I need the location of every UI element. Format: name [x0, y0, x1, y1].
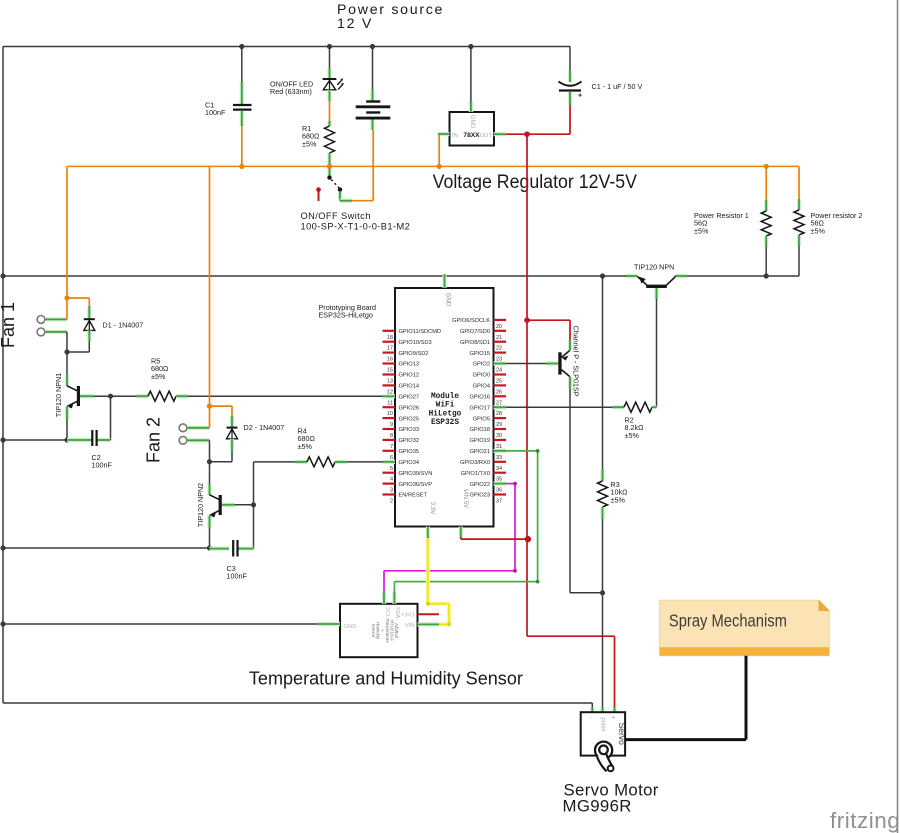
svg-text:GPIO16: GPIO16 [469, 395, 490, 401]
svg-text:21: 21 [496, 335, 502, 341]
svg-text:GPIO3/RX0: GPIO3/RX0 [460, 460, 490, 466]
wire fan1 emitter line [3, 439, 67, 441]
svg-text:±5%: ±5% [611, 495, 626, 504]
pin 21 GPIO7/SD0 right [494, 330, 507, 332]
node fan1 emitter junction [64, 437, 69, 442]
svg-text:ON/OFF Switch: ON/OFF Switch [301, 211, 371, 221]
svg-text:GPIO15: GPIO15 [469, 351, 490, 357]
pin 30 GPIO18 right [494, 428, 507, 430]
svg-text:-: - [591, 715, 593, 721]
node C2 base junction [108, 394, 113, 399]
wire fan2 orange feed [209, 166, 211, 427]
wire channelP source down [569, 389, 571, 593]
svg-text:GPIO12: GPIO12 [399, 373, 420, 379]
svg-text:D1 - 1N4007: D1 - 1N4007 [103, 321, 144, 330]
capacitor C3 100nF [210, 546, 230, 550]
pin 29 GPIO5 right [494, 417, 507, 419]
node VIN red junction [525, 536, 531, 542]
svg-text:GPIO9/SD2: GPIO9/SD2 [399, 351, 429, 357]
svg-text:2: 2 [390, 499, 393, 505]
wire VIN red feed [460, 537, 462, 539]
svg-text:TIP120 NPN1: TIP120 NPN1 [54, 373, 63, 417]
svg-text:24: 24 [496, 368, 502, 374]
diode D2 1N4007 [227, 427, 238, 429]
svg-text:26: 26 [496, 389, 502, 395]
pin 36 GPIO22 right [494, 482, 507, 486]
pin 3 GPIO36/SVP left [383, 483, 396, 485]
wire left ground rail [2, 47, 4, 704]
svg-text:3: 3 [390, 488, 393, 494]
svg-text:GPIO21: GPIO21 [469, 449, 490, 455]
resistor R1 680 [325, 126, 335, 153]
svg-text:ESP32S: ESP32S [431, 419, 459, 427]
pin sensor GND [318, 622, 340, 626]
svg-text:100nF: 100nF [92, 461, 113, 470]
wire servo to spray mechanism [625, 738, 746, 741]
pin 20 GPIO6/SDCLK right [494, 319, 507, 321]
svg-text:GPIO14: GPIO14 [399, 384, 420, 390]
capacitor C1 1uF 50V [569, 47, 571, 71]
svg-text:Sensor: Sensor [371, 624, 376, 638]
resistor Power resistor 2 56 [798, 166, 800, 199]
pin 17 GPIO10/SD3 left [383, 341, 396, 343]
svg-text:18: 18 [387, 335, 393, 341]
wire LED to R1 [327, 90, 331, 101]
pin 12 GPIO14 left [383, 384, 396, 386]
svg-text:28: 28 [496, 411, 502, 417]
wire C3 base vertical [253, 462, 255, 549]
svg-text:100-SP-X-T1-0-0-B1-M2: 100-SP-X-T1-0-0-B1-M2 [301, 222, 411, 232]
pin 10 GPIO26 left [383, 406, 396, 408]
node C1 orange bus junction [239, 164, 244, 169]
ic U3 sensor inner label [371, 618, 399, 643]
svg-text:33: 33 [496, 455, 502, 461]
pin 37 GPIO23 right [494, 493, 507, 495]
svg-text:EN/RESET: EN/RESET [399, 493, 428, 499]
wire sensor ground line [3, 623, 318, 625]
svg-text:GPIO5: GPIO5 [473, 416, 490, 422]
svg-text:GPIO18: GPIO18 [469, 427, 490, 433]
svg-text:MG996R: MG996R [563, 797, 632, 816]
svg-text:GPIO35: GPIO35 [399, 449, 420, 455]
ic U3 HTU21D-F sensor box [340, 604, 418, 657]
svg-text:100nF: 100nF [205, 108, 226, 117]
pin 6 GPIO35 left [383, 450, 396, 452]
pin 11 GPIO27 left [383, 394, 396, 398]
pin 2 EN/RESET left [383, 493, 396, 495]
svg-text:±5%: ±5% [811, 226, 826, 235]
svg-text:Red (633nm): Red (633nm) [270, 87, 312, 96]
node C1 top bus junction [239, 44, 244, 49]
svg-text:GPIO7/SD0: GPIO7/SD0 [460, 329, 490, 335]
svg-text:Fan 2: Fan 2 [144, 417, 164, 463]
svg-text:GPIO27: GPIO27 [399, 395, 420, 401]
svg-text:TIP120 NPN2: TIP120 NPN2 [196, 483, 205, 527]
wire GPIO21 green [506, 450, 538, 452]
svg-text:ESP32S-HiLetgo: ESP32S-HiLetgo [319, 311, 373, 320]
pin 18 GPIO11/SDCMD left [383, 330, 396, 332]
pin 33 GPIO21 right [494, 449, 507, 453]
ic servo box [581, 712, 625, 755]
pin 27 GPIO16 right [494, 395, 507, 397]
svg-text:VIN 5V: VIN 5V [462, 489, 469, 509]
svg-text:GPIO1/TX0: GPIO1/TX0 [461, 471, 490, 477]
wire R5 base line [80, 394, 94, 398]
svg-text:Voltage Regulator 12V-5V: Voltage Regulator 12V-5V [433, 172, 638, 193]
node fan1 orange junction [64, 295, 69, 300]
wire ground to servo [591, 703, 593, 707]
svg-text:29: 29 [496, 422, 502, 428]
pin 34 GPIO3/RX0 right [494, 461, 507, 463]
pin 4 GPIO39/SVN left [383, 472, 396, 474]
wire top 12V bus [3, 46, 570, 48]
svg-text:WiFi: WiFi [436, 402, 455, 410]
pin VIN 5V bottom [459, 527, 463, 538]
svg-text:+: + [578, 93, 582, 100]
svg-text:GPIO17: GPIO17 [469, 405, 490, 411]
voltage regulator U1 78XX [450, 112, 495, 146]
wire switched 12V orange bus [67, 165, 799, 167]
svg-text:4: 4 [390, 477, 393, 483]
svg-text:±5%: ±5% [298, 442, 313, 451]
svg-text:GPIO26: GPIO26 [399, 405, 420, 411]
svg-text:3.3V: 3.3V [429, 502, 436, 516]
node fan2 collector junction [207, 459, 212, 464]
node LED top bus junction [327, 44, 332, 49]
capacitor C1 100nF [241, 47, 243, 83]
node power resistor bottoms junction [764, 273, 769, 278]
pin 28 GPIO17 right [494, 405, 507, 409]
svg-text:GPIO39/SVN: GPIO39/SVN [399, 471, 433, 477]
wire 78XX OUT red [494, 132, 507, 136]
svg-text:TIP120 NPN: TIP120 NPN [634, 263, 674, 272]
svg-text:30: 30 [496, 433, 502, 439]
pin 23 GPIO15 right [494, 352, 507, 354]
node red rail channelP junction [524, 317, 530, 323]
svg-text:13: 13 [387, 379, 393, 385]
svg-text:C1 - 1 uF / 50 V: C1 - 1 uF / 50 V [592, 82, 643, 91]
svg-text:GPIO34: GPIO34 [399, 460, 420, 466]
node 78XX OUT red junction [524, 131, 530, 137]
wire fan1 diode top orange [67, 297, 89, 299]
pin 7 GPIO32 left [383, 439, 396, 441]
svg-text:37: 37 [496, 499, 502, 505]
pin 31 GPIO19 right [494, 439, 507, 441]
wire R4 base line [222, 503, 235, 507]
wire fan2 emitter line [3, 547, 210, 549]
wire GPIO22 magenta [506, 483, 515, 485]
svg-text:22: 22 [496, 346, 502, 352]
pin 8 GPIO33 left [383, 428, 396, 430]
svg-text:100nF: 100nF [227, 572, 248, 581]
resistor R2 8.2k [506, 406, 612, 408]
svg-text:11: 11 [387, 400, 393, 406]
svg-text:12 V: 12 V [337, 16, 373, 32]
wire fan2 minus to collector [209, 440, 211, 461]
node fan2 base junction [251, 502, 256, 507]
svg-text:16: 16 [387, 357, 393, 363]
svg-text:GPIO6/SDCLK: GPIO6/SDCLK [452, 318, 490, 324]
pin sensor SCL [382, 592, 386, 604]
svg-text:Servo: Servo [617, 723, 627, 745]
svg-text:IN: IN [452, 133, 458, 139]
connector Fan2 pins [179, 424, 187, 432]
svg-text:GND: GND [445, 293, 452, 307]
wire ground bus right segment [675, 275, 800, 277]
svg-text:GND: GND [344, 624, 357, 630]
node fan2 orange junction [207, 404, 212, 409]
svg-text:Fan 1: Fan 1 [0, 302, 18, 348]
svg-text:GPIO13: GPIO13 [399, 362, 420, 368]
svg-text:HiLetgo: HiLetgo [429, 410, 462, 418]
svg-text:Spray Mechanism: Spray Mechanism [669, 610, 787, 630]
svg-text:GPIO19: GPIO19 [469, 438, 490, 444]
svg-text:5: 5 [390, 466, 393, 472]
svg-text:GPIO8/SD1: GPIO8/SD1 [460, 340, 490, 346]
svg-text:±5%: ±5% [625, 431, 640, 440]
svg-text:Channel P - SLP01SP: Channel P - SLP01SP [572, 326, 581, 397]
switch ON/OFF 100-SP-X-T1-0-0-B1-M2 [327, 175, 331, 179]
resistor R5 680 [148, 391, 176, 401]
svg-text:7: 7 [390, 444, 393, 450]
wire R1 to switch [327, 153, 331, 166]
node battery top bus junction [370, 44, 375, 49]
svg-text:fritzing: fritzing [830, 808, 900, 833]
pin 9 GPIO25 left [383, 417, 396, 419]
svg-text:Module: Module [431, 393, 459, 401]
svg-text:SCL: SCL [384, 607, 390, 618]
svg-text:GPIO23: GPIO23 [469, 493, 490, 499]
node power resistor1 orange junction [764, 164, 769, 169]
pin 22 GPIO8/SD1 right [494, 341, 507, 343]
svg-text:Temperature and Humidity Senso: Temperature and Humidity Sensor [249, 668, 523, 688]
pin sensor VIN [418, 622, 439, 626]
node R3 bottom junction [600, 590, 605, 595]
svg-text:D2 - 1N4007: D2 - 1N4007 [244, 423, 285, 432]
pin 13 GPIO12 left [383, 373, 396, 375]
svg-text:GPIO11/SDCMD: GPIO11/SDCMD [399, 329, 442, 335]
note Spray Mechanism [660, 600, 830, 656]
pin 35 GPIO1/TX0 right [494, 472, 507, 474]
pin 25 GPIO0 right [494, 373, 507, 375]
wire bottom ground bus [3, 702, 592, 704]
svg-text:15: 15 [387, 368, 393, 374]
wire 78XX GND to top bus [470, 47, 472, 102]
svg-text:GPIO32: GPIO32 [399, 438, 420, 444]
pin 26 GPIO4 right [494, 384, 507, 386]
pin 16 GPIO9/SD2 left [383, 352, 396, 354]
wire fan1 minus to collector [66, 332, 68, 352]
node fan2 emitter junction [207, 545, 212, 550]
node R3 top ground junction [600, 273, 605, 278]
svg-text:GPIO10/SD3: GPIO10/SD3 [399, 340, 432, 346]
resistor R4 680 [254, 461, 296, 463]
wire channelP drain red [569, 320, 571, 339]
svg-text:GPIO4: GPIO4 [473, 384, 490, 390]
pin 24 GPIO2 right [494, 361, 507, 365]
svg-text:pulse: pulse [600, 717, 606, 732]
svg-text:20: 20 [496, 324, 502, 330]
icon servo horn [595, 742, 612, 759]
pin 15 GPIO13 left [383, 362, 396, 364]
pin GND top [442, 274, 446, 288]
wire fan2 diode top orange [210, 405, 233, 407]
connector Fan1 pins [37, 316, 45, 324]
diode D1 1N4007 [84, 318, 95, 320]
node left rail junction dots [0, 273, 5, 278]
wire red 5V rail vertical [526, 134, 528, 636]
resistor R3 10k [602, 276, 604, 469]
svg-text:8: 8 [390, 433, 393, 439]
frame right edge line [897, 0, 899, 833]
wire R3 to servo pulse [602, 593, 604, 707]
pin 5 GPIO34 left [383, 460, 396, 464]
node 78XX IN orange bus junction [437, 164, 442, 169]
battery 12V [372, 47, 374, 91]
svg-text:±5%: ±5% [302, 139, 317, 148]
svg-text:GND: GND [469, 115, 475, 129]
svg-text:GPIO22: GPIO22 [469, 482, 490, 488]
pin sensor +3V3 stub [418, 613, 439, 615]
pin sensor SDA [392, 592, 396, 604]
svg-text:GPIO33: GPIO33 [399, 427, 420, 433]
svg-text:25: 25 [496, 379, 502, 385]
svg-text:+: + [612, 715, 615, 721]
wire fan1 orange feed [66, 166, 68, 319]
svg-text:GPIO0: GPIO0 [473, 373, 490, 379]
wire 78XX IN from orange bus [438, 132, 450, 136]
wire ground bus [3, 275, 638, 277]
svg-text:GPIO36/SVP: GPIO36/SVP [399, 482, 433, 488]
svg-text:VIN: VIN [405, 623, 415, 629]
svg-text:±5%: ±5% [151, 372, 166, 381]
led ON/OFF LED [329, 47, 331, 69]
node 78XX GND bus junction [468, 44, 473, 49]
svg-text:+3V3: +3V3 [401, 613, 414, 619]
resistor Power Resistor 1 56 [765, 166, 767, 200]
node fan1 collector junction [64, 349, 69, 354]
pin 3.3V bottom [426, 527, 430, 539]
svg-text:34: 34 [496, 466, 502, 472]
capacitor C2 100nF [110, 396, 112, 440]
svg-text:17: 17 [387, 346, 393, 352]
svg-text:OUT: OUT [480, 133, 493, 139]
svg-text:GPIO25: GPIO25 [399, 416, 420, 422]
wire 3.3V yellow [426, 538, 430, 604]
svg-text:36: 36 [496, 488, 502, 494]
svg-text:10: 10 [387, 411, 393, 417]
svg-text:SDA: SDA [394, 607, 400, 619]
ic U2 ESP32S module box [395, 288, 494, 527]
node R1 orange bus junction [327, 164, 332, 169]
svg-text:GPIO2: GPIO2 [473, 362, 490, 368]
svg-text:78XX: 78XX [463, 132, 480, 139]
svg-text:9: 9 [390, 422, 393, 428]
svg-text:±5%: ±5% [694, 226, 709, 235]
